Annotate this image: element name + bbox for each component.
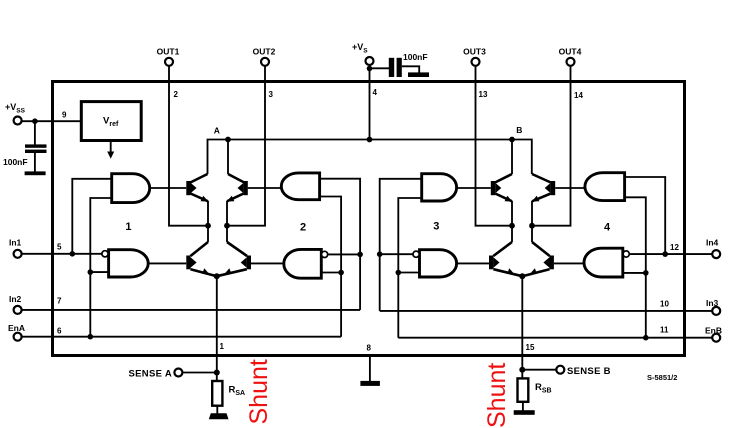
wire +Vs drop to rail xyxy=(369,83,371,140)
svg-text:In4: In4 xyxy=(706,238,719,248)
wire gate 3a output to Q5 base xyxy=(457,187,491,189)
wire EnB riser to gate 4a input xyxy=(625,197,646,337)
node Vs junction xyxy=(367,137,373,143)
node B junction xyxy=(509,137,515,143)
junction sense A node xyxy=(214,370,220,376)
wire OUT1 to bridge A left rail xyxy=(169,83,208,226)
terminal EnA xyxy=(8,323,341,341)
wire gate 3b output to Q7 base xyxy=(457,262,489,264)
terminal +Vss xyxy=(5,102,81,125)
svg-text:4: 4 xyxy=(373,88,378,97)
wire gate 1b output to Q3 base xyxy=(148,262,186,264)
terminal OUT2 xyxy=(253,47,276,84)
terminal In3 xyxy=(380,298,721,315)
svg-text:10: 10 xyxy=(660,300,669,309)
wire EnB riser to gate 3a input xyxy=(398,198,421,338)
wire OUT2 to bridge A right rail xyxy=(227,83,265,226)
svg-text:6: 6 xyxy=(57,327,62,336)
terminal OUT1 xyxy=(157,47,180,84)
svg-text:In2: In2 xyxy=(9,294,22,304)
terminal OUT3 xyxy=(463,47,486,84)
sense A terminal xyxy=(129,369,217,380)
ground (RSA) xyxy=(209,406,229,420)
junction In1 riser xyxy=(70,251,76,257)
junction In3 riser / gate 3b bubble line xyxy=(377,251,383,257)
wire EnA riser to gate 1a input xyxy=(90,198,111,337)
junction In2 riser / gate 2b bubble line xyxy=(357,252,363,258)
svg-text:7: 7 xyxy=(57,297,62,306)
wire bridge A right rail xyxy=(226,201,228,242)
and-gate 2b (lower, channel 2, mirrored) xyxy=(284,249,321,278)
and-gate 1b (lower, channel 1) xyxy=(109,250,149,277)
junction Vss/capacitor node xyxy=(32,118,38,124)
inverter bubble gate 3b input xyxy=(413,251,419,257)
wire In3 riser to gate 3b bubble xyxy=(380,253,413,255)
inverter bubble gate 4b input xyxy=(623,251,629,257)
wire supply rail node A to node B xyxy=(208,140,532,175)
wire EnB riser to gate 3b input xyxy=(398,272,419,274)
junction OUT2 rail xyxy=(224,223,230,229)
svg-text:SENSE B: SENSE B xyxy=(567,366,611,377)
wire gate 1a output to Q1 base xyxy=(150,187,187,189)
svg-text:B: B xyxy=(516,125,522,135)
svg-text:100nF: 100nF xyxy=(403,52,428,62)
transistor Q1 upper-left bridge A xyxy=(186,174,208,202)
wire In3 riser to gate 3a input xyxy=(380,179,422,311)
terminal In1 xyxy=(9,238,102,258)
capacitor C1 100nF (supply Vs) xyxy=(370,52,430,77)
and-gate 1a (upper, channel 1) xyxy=(112,174,150,203)
ground (pin 8) xyxy=(360,381,380,386)
wire node B inner drop xyxy=(511,140,513,175)
node A junction xyxy=(225,137,231,143)
junction OUT4 rail xyxy=(529,223,535,229)
terminal OUT4 xyxy=(559,47,582,84)
svg-text:OUT1: OUT1 xyxy=(157,47,180,57)
junction sense B node xyxy=(519,367,525,373)
svg-text:OUT2: OUT2 xyxy=(253,47,276,57)
wire gate 2a output to Q2 base xyxy=(248,187,281,189)
ground (RSB) xyxy=(514,402,535,415)
junction OUT3 rail xyxy=(509,223,515,229)
wire bridge B to pin 15 / shunt xyxy=(521,276,523,378)
inverter bubble gate 2b input xyxy=(322,251,328,257)
svg-text:5: 5 xyxy=(57,243,62,252)
junction In4 riser xyxy=(662,251,668,257)
terminal +Vs xyxy=(352,42,374,83)
svg-text:8: 8 xyxy=(367,344,372,353)
svg-text:100nF: 100nF xyxy=(3,157,28,167)
svg-text:OUT4: OUT4 xyxy=(559,47,582,57)
svg-text:2: 2 xyxy=(300,222,306,234)
terminal In4 xyxy=(629,238,720,259)
IC outline box xyxy=(53,82,685,356)
and-gate 4b (lower, channel 4, mirrored) xyxy=(584,248,623,277)
svg-text:15: 15 xyxy=(526,343,535,352)
junction bridge B emitters (sense B node) xyxy=(519,273,525,279)
terminal In2 xyxy=(9,294,360,314)
Vref output arrow xyxy=(107,141,114,159)
terminal EnB xyxy=(398,326,722,342)
wire bridge A left rail xyxy=(207,201,209,242)
transistor Q4 lower-right bridge A xyxy=(217,242,251,276)
svg-text:9: 9 xyxy=(62,111,67,120)
junction EnB / channel4 riser xyxy=(643,335,649,341)
wire pin 8 ground stub xyxy=(369,356,371,381)
transistor Q8 lower-right bridge B xyxy=(522,242,554,276)
wire EnA riser to gate 2a input xyxy=(320,197,342,337)
svg-text:S-5851/2: S-5851/2 xyxy=(647,373,677,382)
svg-text:1: 1 xyxy=(220,342,225,351)
wire EnA riser to gate 2b input xyxy=(321,272,341,274)
and-gate 3a (upper, channel 3) xyxy=(422,174,457,201)
transistor Q6 upper-right bridge B xyxy=(532,174,556,202)
wire bridge B right rail xyxy=(531,201,533,242)
junction EnB riser / gate 3b input xyxy=(396,270,402,276)
junction EnA riser / gate 2b input xyxy=(338,270,344,276)
junction Vs/capacitor node xyxy=(367,66,373,72)
voltage reference block Vref xyxy=(81,102,141,141)
svg-text:14: 14 xyxy=(574,91,583,100)
wire gate 4a output to Q6 base xyxy=(555,187,585,189)
capacitor C2 100nF (supply Vss) xyxy=(3,121,47,172)
svg-text:Shunt: Shunt xyxy=(483,363,511,428)
wire gate 2b output to Q4 base xyxy=(251,262,284,264)
svg-text:EnA: EnA xyxy=(8,323,25,333)
transistor Q5 upper-left bridge B xyxy=(491,174,513,202)
wire In2 riser to gate 2a input xyxy=(320,179,361,310)
wire OUT4 to bridge B right rail xyxy=(532,83,571,226)
wire In1 riser to gate 1a input xyxy=(72,179,111,254)
svg-text:13: 13 xyxy=(479,90,488,99)
wire node A inner drop xyxy=(227,140,229,175)
wire bridge B left rail xyxy=(511,201,513,242)
resistor RSA xyxy=(212,381,245,406)
svg-text:Shunt: Shunt xyxy=(245,359,273,424)
svg-text:3: 3 xyxy=(433,221,439,233)
svg-text:A: A xyxy=(214,126,220,136)
junction EnB riser / gate 4b input xyxy=(643,270,649,276)
svg-text:11: 11 xyxy=(660,326,669,335)
wire gate 4b output to Q8 base xyxy=(554,262,584,264)
resistor RSB xyxy=(518,378,552,401)
junction OUT1 rail xyxy=(205,223,211,229)
sense B terminal xyxy=(522,366,611,377)
wire In4 riser to gate 4a input xyxy=(625,177,666,254)
svg-text:4: 4 xyxy=(604,222,611,234)
wire OUT3 to bridge B left rail xyxy=(476,83,513,226)
svg-text:1: 1 xyxy=(125,221,131,233)
svg-text:SENSE A: SENSE A xyxy=(129,369,172,380)
and-gate 2a (upper, channel 2, mirrored) xyxy=(281,173,319,200)
wire EnB riser to gate 4b input xyxy=(623,272,646,274)
svg-text:OUT3: OUT3 xyxy=(463,47,486,57)
junction EnA riser / gate 1b input xyxy=(88,269,94,275)
svg-text:2: 2 xyxy=(174,90,179,99)
and-gate 3b (lower, channel 3) xyxy=(420,250,457,277)
wire gate 2b bubble to In2 riser xyxy=(328,253,360,255)
svg-text:In1: In1 xyxy=(9,238,22,248)
ground (Vss capacitor) xyxy=(25,171,46,175)
and-gate 4a (upper, channel 4, mirrored) xyxy=(585,173,625,201)
svg-text:3: 3 xyxy=(269,90,274,99)
wire EnA riser to gate 1b input xyxy=(90,271,108,273)
wire bridge A to pin 1 / shunt xyxy=(216,276,218,381)
junction EnA / channel1 riser xyxy=(88,334,94,340)
inverter bubble gate 1b input xyxy=(102,251,108,257)
junction bridge A emitters (sense A node) xyxy=(214,273,220,279)
transistor Q2 upper-right bridge A xyxy=(227,174,248,202)
transistor Q3 lower-left bridge A xyxy=(186,242,217,276)
svg-text:12: 12 xyxy=(670,243,679,252)
transistor Q7 lower-left bridge B xyxy=(489,242,522,276)
